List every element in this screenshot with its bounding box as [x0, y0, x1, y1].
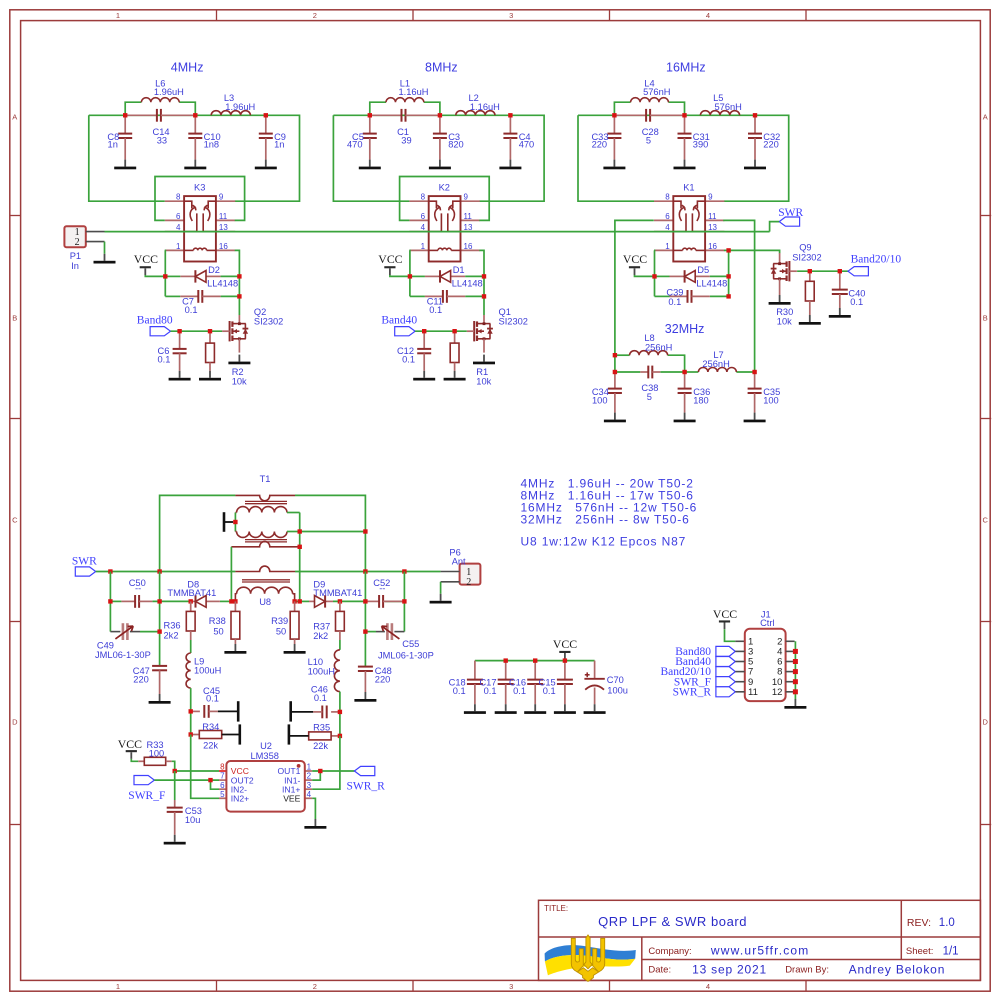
junction snubber right	[482, 294, 486, 298]
wire gate line	[171, 330, 223, 332]
junction R37 top	[338, 599, 342, 603]
inductor L8 256nH	[630, 333, 673, 355]
svg-text:4: 4	[307, 790, 312, 799]
wire right outer vertical	[403, 572, 405, 632]
svg-text:1.16uH: 1.16uH	[399, 87, 429, 97]
relay K1	[654, 182, 724, 261]
transformer T1 coil A	[235, 507, 287, 513]
svg-text:16: 16	[708, 242, 717, 251]
svg-text:C55: C55	[402, 639, 419, 649]
wire VCC rail	[475, 659, 595, 662]
svg-text:220: 220	[133, 675, 149, 685]
svg-text:4: 4	[706, 982, 710, 991]
rev cell	[907, 917, 955, 929]
svg-text:100uH: 100uH	[194, 666, 221, 676]
capacitor C16 0.1	[509, 661, 546, 714]
svg-text:4: 4	[665, 223, 670, 232]
capacitor C52	[365, 578, 404, 608]
svg-text:U2: U2	[260, 741, 272, 751]
svg-text:16: 16	[464, 242, 473, 251]
svg-text:470: 470	[519, 140, 535, 150]
transformer T1 core 1	[245, 501, 287, 503]
svg-text:11: 11	[708, 212, 717, 221]
junction C17 rail	[504, 658, 508, 662]
svg-text:4: 4	[706, 11, 710, 20]
svg-text:Band40: Band40	[381, 315, 417, 327]
wire VCC to R33	[131, 759, 138, 761]
inductor L5 576nH	[700, 93, 742, 115]
svg-text:SWR_R: SWR_R	[347, 780, 386, 792]
diode D2 LL4148	[165, 265, 239, 288]
junction node 16MHz mid	[682, 113, 686, 117]
inductor L2 1.16uH	[456, 93, 500, 115]
svg-text:1.96uH: 1.96uH	[225, 102, 255, 112]
resistor R36 2k2	[164, 601, 196, 640]
capacitor C12 0.1	[397, 331, 435, 380]
capacitor C39 0.1 (relay snubber)	[655, 287, 729, 307]
svg-text:50: 50	[276, 626, 286, 636]
svg-text:K3: K3	[194, 182, 205, 192]
svg-text:6: 6	[421, 212, 426, 221]
svg-text:Company:: Company:	[648, 946, 691, 957]
wire main line T1 to P6	[295, 571, 441, 573]
svg-text:JML06-1-30P: JML06-1-30P	[378, 650, 434, 660]
junction OUT1 feedback	[318, 769, 322, 773]
svg-text:K2: K2	[439, 182, 450, 192]
wire J1 ground bus	[794, 641, 796, 699]
junction C15 rail	[563, 658, 567, 662]
svg-text:22k: 22k	[313, 741, 328, 751]
wire L9 chain to U2 pin5	[191, 735, 219, 799]
transformer T1 (label)	[260, 474, 271, 484]
svg-text:3: 3	[307, 781, 312, 790]
svg-text:JML06-1-30P: JML06-1-30P	[95, 650, 151, 660]
wire relay pin16 down	[724, 250, 729, 296]
ground U2 VEE	[304, 819, 326, 829]
junction VCC-C53	[173, 769, 177, 773]
svg-text:8: 8	[421, 193, 426, 202]
svg-text:SI2302: SI2302	[499, 316, 528, 326]
junction C35	[752, 370, 756, 374]
junction main line left inner	[157, 569, 161, 573]
svg-text:5: 5	[220, 790, 225, 799]
svg-text:C: C	[982, 516, 988, 525]
svg-text:LL4148: LL4148	[696, 278, 727, 288]
svg-text:QRP LPF & SWR board: QRP LPF & SWR board	[598, 914, 747, 929]
net flag Band20/10	[848, 254, 901, 276]
VCC power symbol (K2 coil)	[378, 252, 402, 275]
junction node 16MHz input	[612, 113, 616, 117]
junction node 8MHz input	[368, 113, 372, 117]
svg-text:0.1: 0.1	[314, 693, 327, 703]
junction T1 coilC right bottom	[292, 599, 296, 603]
svg-text:1/1: 1/1	[943, 946, 959, 958]
inductor L3 1.96uH	[211, 93, 255, 115]
ground P1	[94, 254, 116, 264]
svg-text:0.1: 0.1	[668, 297, 681, 307]
svg-text:R34: R34	[202, 722, 219, 732]
svg-text:--: --	[379, 584, 385, 594]
svg-text:2: 2	[313, 982, 317, 991]
junction main line left outer	[108, 569, 112, 573]
junction R35 right	[338, 734, 342, 738]
capacitor C53 10u	[164, 771, 202, 845]
svg-text:SI2302: SI2302	[254, 316, 283, 326]
wire main line SWR to T1	[96, 571, 236, 573]
capacitor C36 180	[674, 372, 711, 422]
transformer T1 winding 3 (hop, on main line)	[235, 566, 295, 571]
junction diode left	[408, 274, 412, 278]
junction C52 left	[363, 599, 367, 603]
junction Q9 gate-R30	[808, 269, 812, 273]
svg-text:R39: R39	[271, 616, 288, 626]
junction C36	[682, 370, 686, 374]
wire relay pin1 loop	[164, 250, 167, 296]
svg-text:6: 6	[220, 781, 225, 790]
VCC power symbol (decoupling rail)	[553, 637, 577, 660]
svg-text:12: 12	[772, 687, 783, 698]
svg-text:2: 2	[307, 772, 312, 781]
resistor R38 50	[209, 601, 247, 653]
junction node 16MHz out	[753, 113, 757, 117]
inductor L1 1.16uH	[386, 78, 428, 102]
svg-text:3: 3	[509, 982, 513, 991]
junction T1 branch on vertical	[363, 529, 367, 533]
junction gate-cap	[422, 329, 426, 333]
junction Q9 gate-C40	[838, 269, 842, 273]
junction C52 right	[402, 599, 406, 603]
transformer T1 winding 1 (hop)	[235, 495, 295, 500]
svg-text:1n8: 1n8	[204, 140, 220, 150]
capacitor C28 5 (series)	[614, 109, 684, 145]
svg-text:220: 220	[375, 675, 391, 685]
svg-text:11: 11	[464, 212, 473, 221]
svg-text:9: 9	[708, 193, 713, 202]
svg-text:576nH: 576nH	[715, 102, 742, 112]
wire K1 pin11 to 32MHz output	[723, 220, 754, 372]
svg-text:VCC: VCC	[378, 252, 402, 266]
capacitor C18 0.1	[449, 661, 486, 714]
svg-text:100u: 100u	[607, 685, 628, 695]
capacitor C14 33 (series)	[125, 109, 195, 145]
wire relay pin1 loop	[408, 250, 411, 296]
junction T1 coilB right	[298, 529, 302, 533]
diode D9 TMMBAT41	[309, 579, 362, 607]
resistor R1 10k	[444, 331, 492, 386]
junction main line right inner	[363, 569, 367, 573]
wire gate line	[415, 330, 467, 332]
svg-text:1.96uH: 1.96uH	[154, 87, 184, 97]
title text	[544, 904, 747, 929]
capacitor C45 0.1	[191, 686, 239, 722]
wire relay pin16 down	[479, 250, 484, 315]
svg-text:16MHz: 16MHz	[666, 60, 706, 74]
transistor Q2 SI2302	[222, 307, 283, 364]
junction gate-cap	[177, 329, 181, 333]
svg-text:R36: R36	[164, 621, 181, 631]
wire OUT1 feedback to pin2	[312, 771, 320, 780]
junction C46 right	[338, 710, 342, 714]
capacitor C34 100	[592, 372, 626, 422]
wire L8 branch	[615, 355, 685, 372]
svg-text:www.ur5ffr.com: www.ur5ffr.com	[710, 944, 810, 958]
capacitor C15 0.1	[539, 661, 576, 714]
svg-text:10k: 10k	[476, 376, 491, 386]
junction snubber right	[237, 294, 241, 298]
wire left outer vertical	[109, 572, 111, 632]
junction diode left	[163, 274, 167, 278]
svg-text:VCC: VCC	[713, 607, 737, 621]
svg-text:0.1: 0.1	[206, 693, 219, 703]
wire T1 right winding vertical	[287, 513, 300, 602]
wire relay pin1 loop	[653, 250, 656, 296]
svg-text:8: 8	[220, 763, 225, 772]
svg-text:VEE: VEE	[283, 794, 300, 804]
junction node 4MHz out	[264, 113, 268, 117]
svg-text:TMMBAT41: TMMBAT41	[167, 588, 216, 598]
capacitor C48 220	[354, 666, 391, 702]
svg-text:T1: T1	[260, 474, 271, 484]
junction gate-res	[452, 329, 456, 333]
connector P1 In	[64, 226, 104, 271]
capacitor C9 1n	[255, 115, 286, 169]
wire R33 to U2 pin8	[172, 761, 219, 771]
svg-text:--: --	[135, 584, 141, 594]
svg-text:VCC: VCC	[118, 737, 142, 751]
svg-text:100: 100	[763, 395, 779, 405]
wire bypass loop K2 pins 6-11	[400, 177, 490, 221]
svg-text:TITLE:: TITLE:	[544, 904, 568, 913]
transformer T1 coil B	[235, 532, 287, 538]
connector P6 Ant	[441, 547, 481, 588]
wire hop2 left down	[230, 547, 232, 602]
svg-text:3: 3	[509, 11, 513, 20]
svg-text:C49: C49	[97, 640, 114, 650]
svg-text:Date:: Date:	[648, 965, 671, 976]
net flag Band40	[381, 315, 417, 336]
svg-text:1.0: 1.0	[939, 917, 955, 929]
svg-text:100uH: 100uH	[308, 666, 335, 676]
svg-text:1: 1	[116, 11, 120, 20]
junction K1 pin16	[726, 248, 730, 252]
VCC power symbol (J1)	[713, 607, 737, 629]
svg-text:2k2: 2k2	[313, 631, 328, 641]
wire detector line left	[110, 600, 235, 602]
wire L10 chain to U2 pin3	[312, 736, 340, 789]
wire SWR jog	[770, 222, 780, 232]
svg-text:10k: 10k	[232, 376, 247, 386]
wire SWR_F to U2 pin7	[154, 779, 219, 781]
junction R36 top	[189, 599, 193, 603]
svg-text:2: 2	[75, 237, 80, 248]
resistor R30 10k	[776, 271, 821, 326]
wire bypass loop K3 pins 6-11	[155, 177, 245, 221]
relay K2	[409, 182, 479, 261]
wire U2 pin4 to ground	[312, 798, 315, 819]
capacitor C40 0.1	[829, 271, 866, 318]
wire K1 pin6 to 32MHz input	[615, 220, 654, 372]
svg-text:Drawn By:: Drawn By:	[785, 965, 829, 976]
inductor L4 576nH	[631, 78, 671, 102]
16MHz filter section title	[666, 60, 706, 74]
junction L8 left	[613, 353, 617, 357]
svg-text:1n: 1n	[274, 140, 284, 150]
svg-text:10k: 10k	[777, 317, 792, 327]
transformer T1 core 2	[245, 540, 287, 542]
svg-text:220: 220	[763, 140, 779, 150]
wire 32MHz main line	[615, 371, 755, 373]
svg-text:9: 9	[219, 193, 224, 202]
capacitor C47 220	[133, 666, 171, 704]
net flag SWR_F	[128, 776, 165, 803]
junction node 4MHz mid	[193, 113, 197, 117]
junction diode right	[726, 274, 730, 278]
sheet cell	[906, 946, 959, 958]
svg-text:390: 390	[693, 140, 709, 150]
capacitor C4 470	[499, 115, 534, 169]
svg-text:K1: K1	[683, 182, 694, 192]
ground P6	[430, 594, 452, 604]
svg-text:5: 5	[647, 392, 652, 402]
connector J1 Ctrl	[735, 609, 794, 701]
diode D8 TMMBAT41	[167, 579, 220, 607]
svg-text:576nH: 576nH	[643, 87, 670, 97]
junction C16 rail	[533, 658, 537, 662]
svg-text:D: D	[12, 718, 18, 727]
capacitor C8 1n	[107, 115, 136, 169]
svg-text:256nH: 256nH	[702, 359, 729, 369]
logo trident	[571, 935, 604, 982]
wire P1 pin2 to ground	[104, 242, 106, 254]
resistor R34 22k	[191, 722, 240, 750]
svg-text:220: 220	[592, 140, 608, 150]
wire 8MHz filter loop	[333, 102, 544, 201]
resistor R33 100	[138, 740, 171, 765]
svg-text:1: 1	[176, 242, 181, 251]
VCC power symbol (U2)	[118, 737, 142, 759]
svg-text:0.1: 0.1	[157, 354, 170, 364]
junction C45 left	[189, 709, 193, 713]
junction OUT2 feedback	[208, 778, 212, 782]
svg-text:10u: 10u	[185, 815, 201, 825]
svg-text:0.1: 0.1	[402, 354, 415, 364]
junction diode left	[652, 274, 656, 278]
svg-text:P1: P1	[70, 251, 81, 261]
net flag Band80	[137, 315, 173, 336]
svg-text:Ant: Ant	[452, 556, 466, 566]
svg-text:A: A	[12, 113, 17, 122]
junction R34 left	[189, 732, 193, 736]
inductor L6 1.96uH	[141, 78, 183, 102]
wire L9 to C45 line	[190, 688, 192, 734]
wire VCC to J1 pin1	[725, 629, 736, 641]
svg-text:Band20/10: Band20/10	[851, 254, 902, 266]
svg-text:16: 16	[219, 242, 228, 251]
svg-text:Ctrl: Ctrl	[760, 618, 774, 628]
capacitor C7 0.1 (relay snubber)	[165, 290, 239, 315]
resistor R37 2k2	[313, 601, 344, 641]
junction C49 right	[157, 629, 161, 633]
inductor L10 100uH	[308, 650, 340, 692]
resistor R35 22k	[289, 722, 340, 751]
svg-text:2k2: 2k2	[164, 630, 179, 640]
svg-text:D: D	[982, 718, 988, 727]
svg-text:TMMBAT41: TMMBAT41	[313, 588, 362, 598]
svg-text:39: 39	[401, 135, 411, 145]
svg-text:11: 11	[219, 212, 228, 221]
svg-text:1.16uH: 1.16uH	[470, 102, 500, 112]
svg-text:8: 8	[176, 193, 181, 202]
trimmer capacitor C49 JML06-1-30P	[95, 623, 160, 660]
svg-text:7: 7	[220, 772, 225, 781]
svg-text:R35: R35	[313, 722, 330, 732]
svg-text:13: 13	[219, 223, 228, 232]
svg-text:Sheet:: Sheet:	[906, 946, 933, 957]
wire left inner vertical	[159, 572, 161, 666]
wire VCC to diode line	[145, 275, 165, 276]
capacitor C32 220	[744, 115, 780, 169]
svg-text:0.1: 0.1	[453, 686, 466, 696]
svg-text:R37: R37	[313, 621, 330, 631]
wire main RF line P1 to K1	[105, 231, 770, 233]
wire T1 loop right	[295, 495, 365, 571]
wire relay pin16 down	[235, 250, 240, 315]
wire OUT2 feedback to pin6	[211, 780, 220, 789]
svg-text:11: 11	[748, 687, 758, 698]
capacitor C5 470	[347, 115, 381, 169]
svg-text:LL4148: LL4148	[452, 278, 483, 288]
net flag SWR (to K1 pin13)	[778, 207, 803, 226]
svg-text:SWR_R: SWR_R	[673, 686, 712, 698]
svg-text:0.1: 0.1	[185, 305, 198, 315]
wire VCC to diode line	[390, 275, 410, 276]
svg-text:0.1: 0.1	[513, 686, 526, 696]
capacitor C3 820	[429, 115, 464, 169]
svg-text:1: 1	[421, 242, 426, 251]
wire K1 pin16 to Q9	[729, 250, 780, 253]
capacitor C70 100u (polarized)	[584, 661, 628, 714]
wire R36 to L9	[190, 640, 192, 653]
svg-text:IN2+: IN2+	[231, 794, 249, 804]
junction node 8MHz mid	[438, 113, 442, 117]
junctions J1 unused pins	[793, 649, 798, 694]
wire P6 pin2 to ground	[440, 582, 442, 594]
junction C50 left	[108, 599, 112, 603]
op-amp U2 LM358	[219, 741, 312, 812]
VCC power symbol (K1 coil)	[623, 252, 647, 275]
svg-text:5: 5	[646, 135, 651, 145]
svg-text:32MHz 256nH -- 8w T50-6: 32MHz 256nH -- 8w T50-6	[521, 513, 690, 527]
T1 terminal bar	[224, 512, 238, 532]
svg-text:22k: 22k	[203, 740, 218, 750]
svg-text:2: 2	[466, 577, 471, 588]
svg-text:D5: D5	[697, 265, 709, 275]
svg-text:SWR: SWR	[72, 555, 97, 567]
capacitor C17 0.1	[479, 661, 516, 714]
capacitor C6 0.1	[157, 331, 190, 380]
junction T1 coilC left bottom	[233, 599, 237, 603]
wire R37 to L10	[339, 640, 341, 650]
svg-text:D1: D1	[453, 265, 465, 275]
transistor Q9 SI2302	[769, 243, 822, 305]
capacitor C31 390	[674, 115, 710, 169]
junction node 4MHz input	[123, 113, 127, 117]
inductor L7 256nH	[698, 350, 736, 372]
svg-text:13: 13	[708, 223, 717, 232]
svg-text:LL4148: LL4148	[207, 278, 238, 288]
wire Q9 gate line	[797, 270, 848, 272]
wire U2 pin1 to SWR_R	[312, 770, 354, 772]
